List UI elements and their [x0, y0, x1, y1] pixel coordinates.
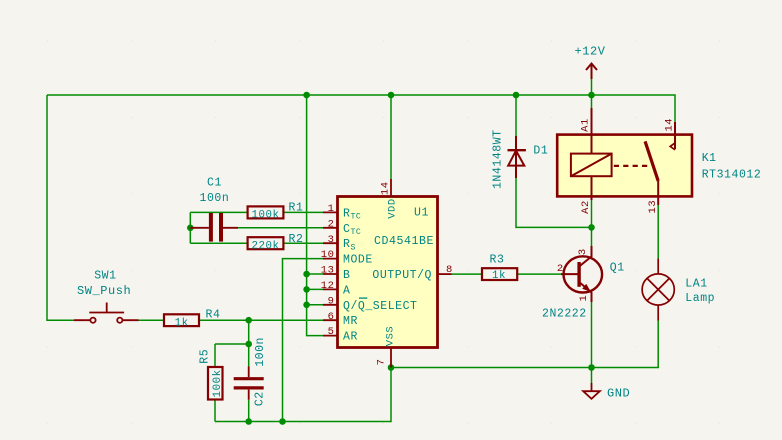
junction pin7 / bottom rail	[388, 364, 395, 371]
svg-text:RT314012: RT314012	[702, 169, 762, 182]
resistor R1	[248, 206, 284, 218]
svg-text:1k: 1k	[175, 317, 189, 329]
wire row pin2	[238, 227, 323, 229]
wire bottom rail	[215, 368, 391, 422]
wire pin8 to R3	[452, 273, 483, 275]
lamp LA1	[642, 259, 674, 321]
wire switch to R4	[139, 319, 165, 321]
wire row pin3	[190, 242, 323, 244]
svg-text:100n: 100n	[254, 337, 267, 367]
svg-text:K1: K1	[702, 152, 717, 165]
relay K1 linkage dashed	[614, 165, 651, 167]
svg-text:GND: GND	[607, 387, 630, 401]
wire row pin1	[190, 211, 323, 213]
junction top rail / VDD	[388, 92, 395, 99]
wire emitter down	[591, 302, 593, 368]
junction top rail / V1	[303, 92, 310, 99]
svg-text:U1: U1	[414, 207, 429, 220]
svg-text:Q1: Q1	[610, 261, 625, 274]
svg-text:C2: C2	[254, 391, 267, 406]
junction top rail / +12V	[588, 92, 595, 99]
junction R4 / pin6	[245, 317, 252, 324]
junction D1 / collector	[588, 224, 595, 231]
wire VDD drop	[390, 95, 392, 179]
svg-text:R5: R5	[199, 349, 212, 364]
wire left rail	[47, 95, 74, 320]
wire collector to relay A2	[591, 200, 593, 246]
svg-text:7: 7	[376, 358, 388, 365]
U1 left pin stubs 1,2,3,10,13,12,9,6,5	[323, 212, 338, 335]
junction top rail / D1	[513, 92, 520, 99]
svg-text:1N4148WT: 1N4148WT	[491, 129, 504, 189]
wire top +12V rail	[47, 95, 675, 122]
svg-text:C1: C1	[207, 177, 222, 190]
svg-text:12: 12	[321, 280, 335, 292]
svg-text:100n: 100n	[200, 192, 230, 205]
transistor Q1 2N2222	[561, 246, 602, 302]
op IC U1 CD4541BE body	[338, 197, 438, 348]
svg-text:2: 2	[557, 263, 564, 275]
svg-text:VSS: VSS	[385, 326, 397, 347]
capacitor C1	[190, 213, 238, 242]
wire C2 legs	[248, 344, 250, 422]
junction V1 / pin13	[303, 271, 310, 278]
svg-text:9: 9	[328, 295, 335, 307]
svg-text:Lamp: Lamp	[685, 292, 715, 305]
junction GND node	[588, 364, 595, 371]
resistor R5	[208, 367, 223, 400]
wire trigger node drop	[215, 320, 249, 344]
svg-text:13: 13	[647, 200, 659, 214]
U1 pin 14 stub	[390, 179, 392, 197]
svg-text:SW1: SW1	[94, 269, 116, 282]
power +12V symbol	[586, 64, 597, 80]
wire relay A1	[591, 79, 593, 109]
wire gnd row to lamp	[391, 321, 658, 368]
svg-text:SW_Push: SW_Push	[77, 284, 131, 298]
wire node X vertical (C1 left)	[189, 212, 191, 243]
svg-text:2: 2	[328, 218, 335, 230]
svg-text:3: 3	[577, 248, 589, 255]
svg-text:R3: R3	[490, 253, 505, 266]
svg-text:CD4541BE: CD4541BE	[374, 235, 434, 248]
U1 pin 7 stub	[390, 348, 392, 368]
wire R5 legs	[214, 344, 216, 422]
resistor R3	[482, 268, 517, 280]
relay K1 switch blade	[645, 141, 658, 181]
wire row pin12	[307, 288, 323, 290]
relay K1 contact chevron pin14	[670, 143, 675, 150]
svg-text:1: 1	[578, 295, 590, 302]
svg-text:MODE: MODE	[343, 254, 373, 267]
junction MODE bottom rail	[279, 418, 286, 425]
svg-text:A: A	[343, 284, 350, 297]
wire relay pin13 to lamp	[657, 205, 659, 259]
wire diode top	[515, 95, 517, 136]
wire row pin9	[307, 304, 323, 306]
svg-text:R2: R2	[289, 233, 304, 246]
svg-text:1k: 1k	[492, 270, 506, 282]
relay K1 coil	[571, 154, 612, 177]
svg-text:+12V: +12V	[575, 44, 606, 58]
svg-text:14: 14	[664, 118, 676, 132]
svg-text:13: 13	[321, 265, 335, 277]
junction R5-C2 top	[245, 341, 252, 348]
wire R3 to base	[517, 273, 561, 275]
svg-text:14: 14	[380, 181, 392, 195]
resistor R2	[248, 237, 284, 249]
svg-text:D1: D1	[533, 144, 548, 157]
switch SW1 SW_Push	[74, 303, 139, 323]
svg-text:MR: MR	[343, 315, 358, 328]
svg-text:100k: 100k	[251, 210, 279, 222]
resistor R4	[164, 314, 199, 326]
svg-text:3: 3	[328, 234, 335, 246]
wire R4 to pin6	[199, 319, 323, 321]
relay K1 pin 13	[657, 181, 659, 205]
junction node X / C1	[187, 225, 194, 232]
U1 pin 8 stub	[438, 273, 452, 275]
capacitor C2	[234, 366, 264, 400]
svg-text:A2: A2	[580, 200, 592, 214]
svg-text:5: 5	[328, 326, 335, 338]
junction V1 / pin9	[303, 302, 310, 309]
wire MODE to GND rail	[283, 259, 324, 422]
svg-text:A1: A1	[580, 118, 592, 132]
relay K1 pin A2	[591, 176, 593, 200]
svg-text:R1: R1	[289, 202, 304, 215]
svg-text:6: 6	[328, 311, 335, 323]
svg-text:OUTPUT/Q: OUTPUT/Q	[372, 269, 432, 282]
svg-text:Q/Q_SELECT: Q/Q_SELECT	[343, 300, 418, 313]
svg-text:2N2222: 2N2222	[542, 308, 587, 321]
wire GND stem	[591, 368, 593, 384]
wire row pin13	[307, 273, 323, 275]
junction C2 bottom rail	[245, 418, 252, 425]
svg-text:1: 1	[328, 203, 335, 215]
relay K1 RT314012 body	[557, 135, 692, 197]
wire vertical bus V1	[307, 95, 323, 336]
svg-text:B: B	[343, 269, 350, 282]
power GND symbol	[583, 383, 600, 399]
junction V1 / pin12	[303, 286, 310, 293]
svg-text:LA1: LA1	[685, 278, 707, 291]
svg-text:VDD: VDD	[387, 198, 399, 219]
svg-text:220k: 220k	[251, 240, 279, 252]
diode D1	[508, 136, 526, 178]
svg-text:R4: R4	[206, 309, 221, 322]
relay K1 pin A1	[591, 108, 593, 154]
wire diode bottom to collector node	[516, 178, 592, 227]
relay K1 pin 14	[674, 122, 676, 149]
svg-text:10: 10	[321, 249, 335, 261]
svg-text:100k: 100k	[212, 369, 224, 397]
svg-text:AR: AR	[343, 331, 358, 344]
svg-text:8: 8	[446, 264, 453, 276]
